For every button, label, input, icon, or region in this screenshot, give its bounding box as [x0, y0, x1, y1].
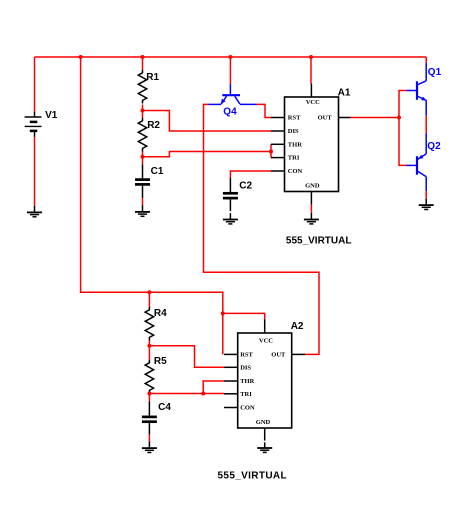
wire: Q1 emitter to Q2 emitter — [425, 116, 427, 133]
svg-text:A2: A2 — [291, 321, 304, 332]
label 555_VIRTUAL (A1) — [286, 236, 352, 247]
wire: node to TRI of A2 — [149, 393, 224, 395]
transistor Q4 — [209, 84, 257, 117]
svg-text:DIS: DIS — [288, 128, 299, 135]
wire: rail to R1 — [142, 57, 144, 70]
pin stub TRI A1 — [271, 157, 285, 159]
wire: V1 to ground — [34, 137, 36, 206]
op-amp/timer U A2 box — [238, 321, 304, 428]
label 555_VIRTUAL (A2) — [218, 471, 287, 482]
svg-text:CON: CON — [288, 168, 303, 175]
svg-text:Q2: Q2 — [427, 141, 441, 152]
svg-text:C2: C2 — [239, 181, 252, 192]
svg-text:VCC: VCC — [259, 338, 273, 345]
transistor Q2 — [407, 133, 442, 191]
capacitor C1 — [135, 157, 164, 198]
capacitor C4 — [142, 394, 171, 435]
resistor R2 — [138, 111, 160, 157]
svg-text:R2: R2 — [147, 120, 160, 131]
junction R4/R5/DIS node — [147, 344, 151, 348]
pin stub RST A2 — [224, 353, 238, 355]
svg-text:C1: C1 — [151, 166, 164, 177]
wire: node to THR/TRI of A1 — [143, 152, 272, 157]
wire: rail to Q4 base — [229, 57, 231, 84]
junction on rail at x=230.4 — [228, 55, 232, 59]
svg-text:A1: A1 — [338, 87, 351, 98]
junction R1/R2/DIS node — [141, 109, 145, 113]
pin stub GND A1 — [310, 192, 312, 205]
svg-text:555_VIRTUAL: 555_VIRTUAL — [286, 236, 352, 247]
wire: top VCC rail — [35, 56, 427, 58]
svg-text:TRI: TRI — [288, 155, 300, 162]
pin stub VCC A1 — [310, 84, 312, 98]
wire: C1 to ground — [142, 198, 144, 205]
svg-text:Q1: Q1 — [428, 67, 442, 78]
wire: long left vertical to lower section — [81, 57, 223, 354]
svg-text:GND: GND — [305, 182, 320, 189]
pin stub VCC A2 — [264, 320, 266, 334]
wire: C4 to ground — [148, 435, 150, 442]
wire: rail corner to Q1 collector — [425, 57, 427, 63]
pin stub THR A1 — [271, 143, 285, 145]
svg-text:THR: THR — [240, 378, 254, 385]
pin stub THR A2 — [224, 380, 238, 382]
pin stub TRI A2 — [224, 393, 238, 395]
junction OUT/base rail — [397, 116, 401, 120]
wire: OUT A1 to transistor bases — [351, 117, 400, 119]
svg-text:555_VIRTUAL: 555_VIRTUAL — [218, 471, 287, 482]
pin stub DIS A1 — [271, 130, 285, 132]
wire: node to DIS of A1 — [143, 111, 272, 132]
resistor R5 — [145, 346, 167, 394]
junction THR branch — [201, 392, 205, 396]
svg-text:RST: RST — [240, 352, 253, 359]
junction R5/C4/TRI node — [147, 392, 151, 396]
wire: THR-TRI jumper at A1 — [270, 144, 272, 157]
capacitor C2 — [223, 178, 253, 212]
ground (C2) — [223, 213, 238, 224]
svg-text:R1: R1 — [146, 72, 159, 83]
wire: Q4 emitter down to A2 OUT — [204, 104, 320, 354]
wire: R1 bottom stub — [142, 105, 144, 111]
ground (C4) — [142, 441, 157, 452]
svg-text:TRI: TRI — [240, 391, 252, 398]
wire: base rail Q1/Q2 — [399, 91, 407, 166]
svg-text:OUT: OUT — [271, 352, 286, 359]
pin stub GND A2 — [264, 428, 266, 441]
pin stub CON A2 — [224, 407, 238, 409]
ground (A2 GND) — [257, 442, 272, 452]
pin stub CON A1 — [271, 170, 285, 172]
wire: CON A1 to C2 — [230, 171, 271, 178]
svg-text:OUT: OUT — [318, 115, 333, 122]
svg-text:R4: R4 — [154, 308, 167, 319]
wire: GND A1 to ground — [310, 205, 312, 213]
wire: THR branch of A2 — [203, 381, 224, 394]
pin stub DIS A2 — [224, 366, 238, 368]
wire: branch to A2 VCC — [223, 313, 265, 319]
pin stub OUT A1 — [339, 117, 351, 119]
junction on rail at x=311 — [309, 55, 313, 59]
transistor Q1 — [407, 63, 442, 116]
ground (Q2) — [419, 199, 434, 210]
op-amp/timer U A1 box — [285, 87, 351, 191]
resistor R4 — [145, 292, 167, 345]
svg-text:GND: GND — [256, 419, 271, 426]
junction wire A / A2 VCC branch — [221, 311, 225, 315]
svg-text:DIS: DIS — [240, 364, 251, 371]
svg-text:R5: R5 — [154, 356, 167, 367]
wire: Q2 collector to ground — [425, 191, 427, 198]
pin stub OUT A2 — [292, 353, 305, 355]
pin stub RST A1 — [271, 117, 285, 119]
resistor R1 — [138, 70, 159, 104]
junction R2/C1/THR node — [141, 155, 145, 159]
battery V1 — [25, 110, 58, 137]
wire: node to DIS of A2 — [149, 346, 224, 368]
svg-text:RST: RST — [288, 115, 301, 122]
junction on rail at x=80.6 — [79, 55, 83, 59]
ground (C1) — [135, 205, 150, 216]
junction on rail at x=142.5 — [141, 55, 145, 59]
svg-text:Q4: Q4 — [223, 106, 237, 117]
svg-text:C4: C4 — [158, 402, 171, 413]
junction wire A / R4 top — [147, 290, 151, 294]
svg-text:THR: THR — [288, 141, 302, 148]
wire: rail to VCC A1 — [310, 57, 312, 84]
ground (V1) — [27, 206, 42, 217]
svg-text:V1: V1 — [45, 110, 58, 121]
svg-text:CON: CON — [240, 405, 255, 412]
wire: Q4 collector to RST of A1 — [257, 104, 272, 117]
svg-text:VCC: VCC — [306, 99, 320, 106]
wire: V1 top — [34, 57, 36, 112]
ground (A1 GND) — [304, 213, 319, 224]
junction THR/TRI jumper — [269, 150, 273, 154]
